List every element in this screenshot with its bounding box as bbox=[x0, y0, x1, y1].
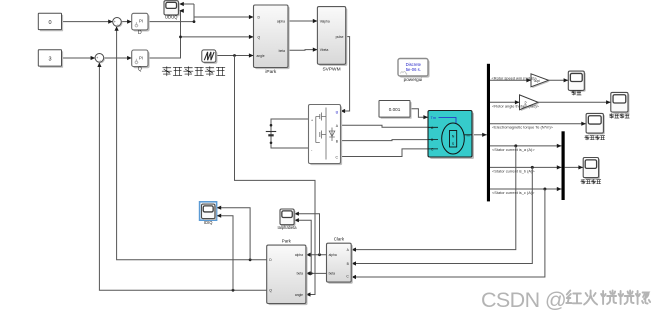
svg-text:D: D bbox=[138, 30, 142, 36]
svg-text:SVPWM: SVPWM bbox=[322, 67, 340, 73]
svg-text:m: m bbox=[467, 133, 470, 137]
svg-text:angle: angle bbox=[295, 293, 303, 297]
svg-text:<Electromagnetic torque Te (N*: <Electromagnetic torque Te (N*m)> bbox=[492, 125, 554, 130]
svg-text:5e-06 s.: 5e-06 s. bbox=[406, 67, 421, 72]
svg-text:Park: Park bbox=[282, 238, 292, 243]
svg-text:N: N bbox=[452, 134, 455, 138]
svg-text:<Stator current is_c (A)>: <Stator current is_c (A)> bbox=[492, 190, 535, 195]
svg-text:Valpha: Valpha bbox=[320, 19, 330, 23]
svg-text:<Stator current is_a (A)>: <Stator current is_a (A)> bbox=[492, 147, 535, 152]
svg-text:0.001: 0.001 bbox=[389, 107, 401, 112]
svg-text:Clark: Clark bbox=[334, 237, 345, 242]
svg-text:Q: Q bbox=[138, 66, 142, 72]
svg-text:+: + bbox=[96, 56, 98, 60]
svg-text:iPark: iPark bbox=[265, 69, 277, 75]
svg-text:+: + bbox=[114, 20, 116, 24]
svg-text:Tm: Tm bbox=[431, 116, 436, 120]
svg-text:alpha: alpha bbox=[295, 253, 303, 257]
svg-text:angle: angle bbox=[257, 54, 265, 58]
svg-text:alpha: alpha bbox=[329, 253, 337, 257]
svg-text:powergui: powergui bbox=[404, 77, 423, 82]
svg-text:0: 0 bbox=[48, 20, 51, 26]
svg-text:g: g bbox=[336, 109, 338, 114]
svg-text:Vbeta: Vbeta bbox=[320, 48, 329, 52]
svg-text:+: + bbox=[311, 119, 313, 123]
svg-text:<Rotor angle thetam (rad)>: <Rotor angle thetam (rad)> bbox=[492, 104, 540, 109]
svg-text:beta: beta bbox=[329, 272, 336, 276]
svg-text:UDUQ: UDUQ bbox=[165, 15, 178, 20]
svg-text:PI: PI bbox=[139, 55, 143, 60]
svg-text:3: 3 bbox=[48, 57, 51, 63]
svg-text:<Rotor speed wm (rad/s)>: <Rotor speed wm (rad/s)> bbox=[492, 75, 538, 80]
svg-text:Ialphabeta: Ialphabeta bbox=[277, 225, 297, 230]
svg-text:pulse: pulse bbox=[336, 35, 344, 39]
svg-text:beta: beta bbox=[279, 49, 286, 53]
svg-text:alpha: alpha bbox=[277, 20, 285, 24]
svg-text:<Stator current is_b (A)>: <Stator current is_b (A)> bbox=[492, 168, 535, 173]
svg-text:beta: beta bbox=[297, 272, 304, 276]
svg-text:Q: Q bbox=[258, 36, 261, 40]
svg-text:CSDN @: CSDN @ bbox=[481, 288, 566, 312]
svg-text:PI: PI bbox=[139, 19, 143, 24]
svg-text:IDIQ: IDIQ bbox=[204, 220, 212, 225]
svg-text:Q: Q bbox=[269, 289, 272, 293]
